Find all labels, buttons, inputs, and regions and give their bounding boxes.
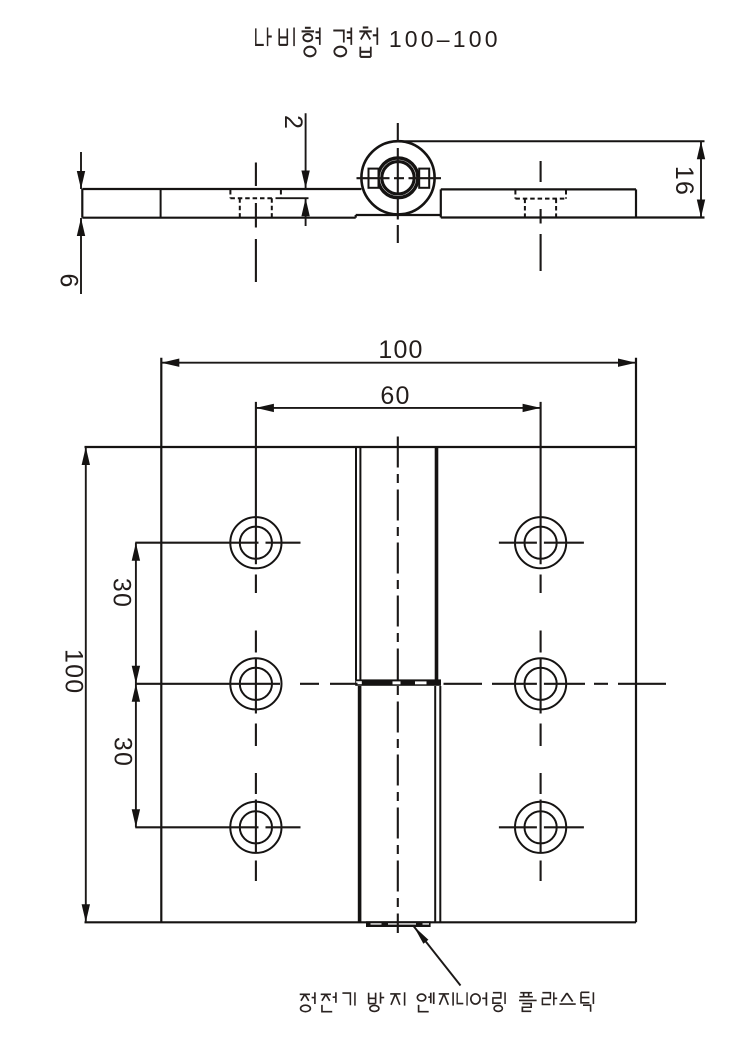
top-left hole horizontal centerline with 30-dim extension	[135, 542, 300, 544]
dim text 60	[380, 382, 410, 410]
right leaf top edge	[441, 188, 636, 190]
svg-text:100: 100	[378, 336, 423, 364]
knuckle horizontal centerline	[357, 177, 442, 179]
dim 30 upper bottom arrow	[132, 666, 140, 684]
middle-left hole	[230, 658, 281, 709]
right leaf right edge	[635, 189, 637, 217]
knuckle joint bar	[355, 679, 441, 685]
dim text 6	[55, 273, 83, 287]
pin bottom cap	[366, 921, 431, 927]
plate bottom edge with extension to left 100-dim	[85, 921, 637, 923]
step at knuckle bottom	[355, 215, 357, 218]
dim 2 upper arrow	[301, 171, 309, 189]
dim text 30 lower	[109, 737, 137, 767]
dim 30 upper line	[135, 543, 137, 684]
pin inner ring	[382, 162, 414, 194]
leader line	[414, 926, 461, 986]
dim 100 top right arrow	[618, 359, 636, 367]
svg-text:60: 60	[380, 382, 410, 410]
lower knuckle right seam line	[434, 686, 436, 922]
dim 6 lower line	[80, 218, 82, 294]
left countersink hidden lines	[230, 190, 281, 198]
dim 30 lower line	[135, 684, 137, 828]
dim 100 left line	[85, 447, 87, 922]
left pin clip	[369, 169, 379, 188]
knuckle bottom tangent line	[356, 214, 441, 216]
leader arrow	[414, 926, 429, 944]
middle-right hole vertical centerline	[540, 631, 542, 747]
knuckle outer circle	[361, 141, 434, 214]
top-right hole vertical centerline with 60-dim extension	[540, 402, 542, 593]
title hangul: 나비형 경첩	[256, 28, 377, 57]
dim text 2	[279, 115, 307, 129]
right countersink hidden lines	[515, 190, 566, 199]
bottom-left hole	[230, 802, 281, 853]
left leaf top edge	[82, 188, 361, 190]
svg-text:2: 2	[279, 115, 307, 129]
right leaf inner edge	[440, 189, 442, 217]
left leaf bend line	[160, 189, 162, 218]
left hole centerline (side view)	[255, 163, 257, 283]
title digits: 100-100	[389, 26, 501, 52]
bottom-right hole vertical centerline	[540, 773, 542, 881]
left leaf left edge	[81, 189, 83, 218]
dim text 16	[670, 166, 698, 196]
right hole hidden lines	[525, 199, 556, 218]
lower knuckle left edge double line	[358, 686, 362, 922]
dim 16 lower arrow	[697, 200, 705, 218]
svg-text:6: 6	[55, 273, 83, 287]
top-right hole	[515, 517, 566, 568]
bottom note hangul: 정전기 방지 엔지니어링 플라스틱	[300, 992, 594, 1011]
knuckle top tangent extension line to 16-dim	[398, 140, 705, 142]
dim 100 left bottom arrow	[82, 904, 90, 922]
lower knuckle right outer edge	[439, 686, 441, 922]
dim 30 lower bottom arrow	[132, 809, 140, 827]
middle row long centerline	[135, 683, 666, 685]
dim 2 extension line	[276, 197, 309, 199]
dim text 100 left	[60, 649, 88, 694]
bottom edge with extension line to 16-dim	[441, 216, 705, 218]
dim 100 top left arrow	[161, 359, 179, 367]
dim 2 lower line	[305, 198, 307, 226]
dim 60 right arrow	[523, 404, 541, 412]
dim 6 upper arrow	[77, 171, 85, 189]
dim text 30 upper	[108, 578, 136, 608]
middle-right hole	[515, 658, 566, 709]
dim 16 upper arrow	[697, 141, 705, 159]
svg-text:100: 100	[60, 649, 88, 694]
knuckle vertical centerline	[397, 123, 399, 243]
svg-text:100–100: 100–100	[389, 26, 501, 52]
svg-text:16: 16	[670, 166, 698, 196]
top-right hole horizontal centerline	[499, 542, 584, 544]
right hole centerline (side view)	[540, 161, 542, 271]
plate right edge with extension to 100-dim	[635, 358, 637, 923]
upper knuckle left outer edge	[355, 447, 357, 680]
upper knuckle right edge double line	[435, 447, 439, 680]
dim 6 upper line	[80, 152, 82, 189]
dim 60 line	[256, 407, 541, 409]
dim 16 line	[700, 141, 702, 217]
pin outer ring	[378, 158, 418, 198]
right pin clip	[419, 169, 429, 188]
dim 2 upper line	[305, 113, 307, 188]
bottom-right hole	[515, 802, 566, 853]
svg-text:30: 30	[109, 737, 137, 767]
left leaf bottom edge	[82, 217, 355, 219]
top-left hole	[230, 517, 281, 568]
bottom-left hole vertical centerline	[255, 773, 257, 881]
dim 2 lower arrow	[301, 198, 309, 216]
dim 6 lower arrow	[77, 218, 85, 236]
dim 100 left top arrow	[82, 447, 90, 465]
bottom-right hole horizontal centerline	[499, 826, 584, 828]
upper knuckle left seam line	[359, 447, 361, 680]
dim 30 lower top arrow	[132, 684, 140, 702]
dim 30 upper top arrow	[132, 543, 140, 561]
left hole hidden lines	[240, 198, 272, 217]
dim 100 top line	[161, 362, 636, 364]
bottom-left hole horizontal centerline with 30-dim extension	[135, 826, 300, 828]
plate left edge with extension to 100-dim	[160, 358, 162, 923]
middle-left hole vertical centerline	[255, 631, 257, 747]
dim 60 left arrow	[256, 404, 274, 412]
top-left hole vertical centerline with 60-dim extension	[255, 402, 257, 593]
knuckle centerline (plan)	[397, 437, 399, 934]
svg-text:30: 30	[108, 578, 136, 608]
dim text 100 top	[378, 336, 423, 364]
plate top edge with extension to left 100-dim	[85, 446, 637, 448]
